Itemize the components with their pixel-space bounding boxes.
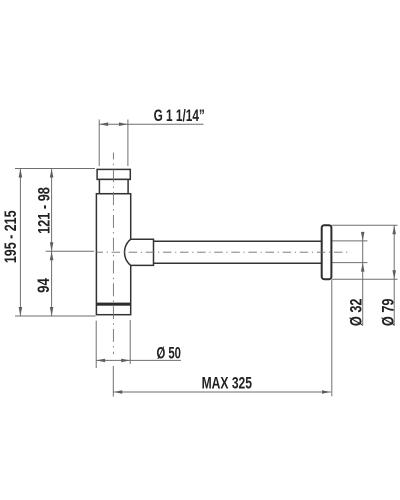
arrow pair at centerline bbox=[50, 242, 54, 260]
svg-text:195 - 215: 195 - 215 bbox=[1, 210, 20, 263]
svg-text:MAX 325: MAX 325 bbox=[202, 373, 252, 392]
arrow bottom of 94 bbox=[50, 307, 54, 316]
wall flange bbox=[322, 225, 332, 279]
arrow top of dia32 bbox=[361, 232, 365, 241]
arrow left of MAX 325 bbox=[113, 390, 122, 394]
svg-text:Ø 32: Ø 32 bbox=[347, 298, 365, 326]
trap body bbox=[96, 194, 130, 315]
trap cap nut bbox=[97, 169, 130, 179]
elbow bbox=[125, 239, 154, 265]
arrow left of dia50 bbox=[96, 359, 105, 363]
dimension line 195-215 bbox=[19, 169, 21, 317]
arrow right of dia50 bbox=[121, 359, 130, 363]
dimension line G 1 1/14 top bbox=[99, 120, 203, 167]
dimension line dia 32 bbox=[362, 233, 364, 326]
extension lines left side bbox=[15, 169, 96, 317]
svg-text:121 - 98: 121 - 98 bbox=[35, 187, 54, 234]
svg-text:Ø 79: Ø 79 bbox=[379, 298, 397, 326]
arrow top of 195-215 bbox=[19, 169, 23, 178]
extension lines MAX 325 bbox=[113, 280, 331, 397]
vertical centerline bbox=[112, 153, 114, 355]
bottom ring bbox=[96, 303, 130, 306]
svg-text:Ø 50: Ø 50 bbox=[156, 344, 181, 362]
extension lines diameter 50 bbox=[96, 320, 181, 368]
arrow top of 121-98 bbox=[50, 169, 54, 178]
horizontal pipe bbox=[154, 241, 322, 263]
arrow right of MAX 325 bbox=[322, 390, 331, 394]
extension lines right side bbox=[331, 225, 397, 279]
arrow top of dia79 bbox=[392, 225, 396, 234]
horizontal centerline bbox=[97, 251, 349, 253]
arrow right of G dimension bbox=[119, 122, 128, 126]
svg-text:G 1 1/14”: G 1 1/14” bbox=[154, 106, 205, 125]
svg-text:94: 94 bbox=[34, 278, 53, 293]
dimension line 121-98 / 94 bbox=[51, 169, 53, 317]
trap neck thread bbox=[99, 179, 128, 193]
arrow bottom of dia32 bbox=[361, 263, 365, 272]
dimension line dia 79 bbox=[393, 225, 395, 326]
arrow bottom of 195-215 bbox=[19, 307, 23, 316]
arrow bottom of dia79 bbox=[392, 270, 396, 279]
arrow left of G dimension bbox=[99, 122, 108, 126]
